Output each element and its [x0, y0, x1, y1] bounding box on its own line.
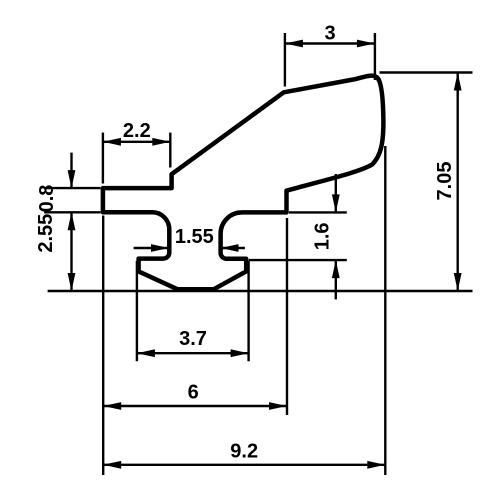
svg-text:6: 6 [188, 381, 199, 403]
dimension 3.7 dim line [137, 352, 249, 354]
dimension 7.05 top extension [380, 71, 473, 73]
dimension 0.8 bottom extension [44, 211, 100, 213]
svg-text:3.7: 3.7 [179, 328, 207, 350]
dimension 1.6 up arrow [332, 260, 340, 278]
dimension 6 left arrow [103, 402, 121, 410]
baseline [48, 290, 473, 292]
dimension 3 left extension [284, 33, 286, 87]
dimension 6 right extension [286, 218, 288, 415]
dimension 3 dim line [285, 42, 375, 44]
dimension 1.55 right line [221, 247, 245, 249]
svg-text:0.8: 0.8 [36, 185, 58, 213]
dimension 1.6 lower shaft [335, 260, 337, 299]
dimension 7.05 down arrow [454, 273, 462, 291]
dimension 1.6 down arrow [332, 194, 340, 212]
svg-text:3: 3 [324, 23, 335, 45]
dimension 9.2 right arrow [367, 461, 385, 469]
dimension 3.7 left extension [136, 261, 138, 361]
dimension 0.8 down arrow [68, 170, 76, 188]
dimension 9.2 right extension [384, 146, 386, 475]
dimension 7.05 shaft [457, 73, 459, 292]
dimension 2.2 right arrow [152, 138, 170, 146]
dimension 2.2 right extension [169, 133, 171, 168]
dimension 1.55 left arrow [151, 244, 169, 252]
dimension 6 left extension [102, 216, 104, 476]
dimension 1.55 left line [134, 247, 169, 249]
dimension 0.8 upper shaft [70, 153, 72, 189]
dimension 6 right arrow [269, 402, 287, 410]
dimension 3 left arrow [285, 40, 303, 48]
dimension 3 right extension [374, 33, 376, 80]
dimension 1.55 right arrow [221, 244, 239, 252]
svg-text:9.2: 9.2 [230, 440, 258, 462]
svg-text:7.05: 7.05 [434, 162, 456, 201]
dimension 1.6 top extension [289, 211, 347, 213]
dimension 3.7 left arrow [137, 349, 155, 357]
dimension 2.55 shaft [70, 212, 72, 291]
dimension 2.55 down arrow [68, 273, 76, 291]
svg-text:2.55: 2.55 [35, 214, 57, 253]
dimension 9.2 dim line [103, 464, 385, 466]
dimension 3 right arrow [357, 40, 375, 48]
dimension 2.2 left arrow [103, 138, 121, 146]
dimension 6 dim line [103, 405, 287, 407]
dimension 3.7 right arrow [231, 349, 249, 357]
dimension 9.2 left arrow [103, 461, 121, 469]
dimension 2.55 up arrow [68, 212, 76, 230]
svg-text:1.55: 1.55 [175, 226, 214, 248]
dimension 2.2 dim line [103, 141, 170, 143]
svg-text:2.2: 2.2 [123, 120, 151, 142]
dimension 1.6 bottom extension [249, 259, 347, 261]
svg-text:1.6: 1.6 [312, 222, 334, 250]
dimension 2.2 left extension [102, 133, 104, 184]
dimension 1.6 upper shaft [335, 174, 337, 212]
profile outline of seal cross-section [103, 76, 384, 290]
dimension 0.8 top extension [44, 187, 100, 189]
dimension 3.7 right extension [247, 261, 249, 361]
dimension 7.05 up arrow [454, 73, 462, 91]
